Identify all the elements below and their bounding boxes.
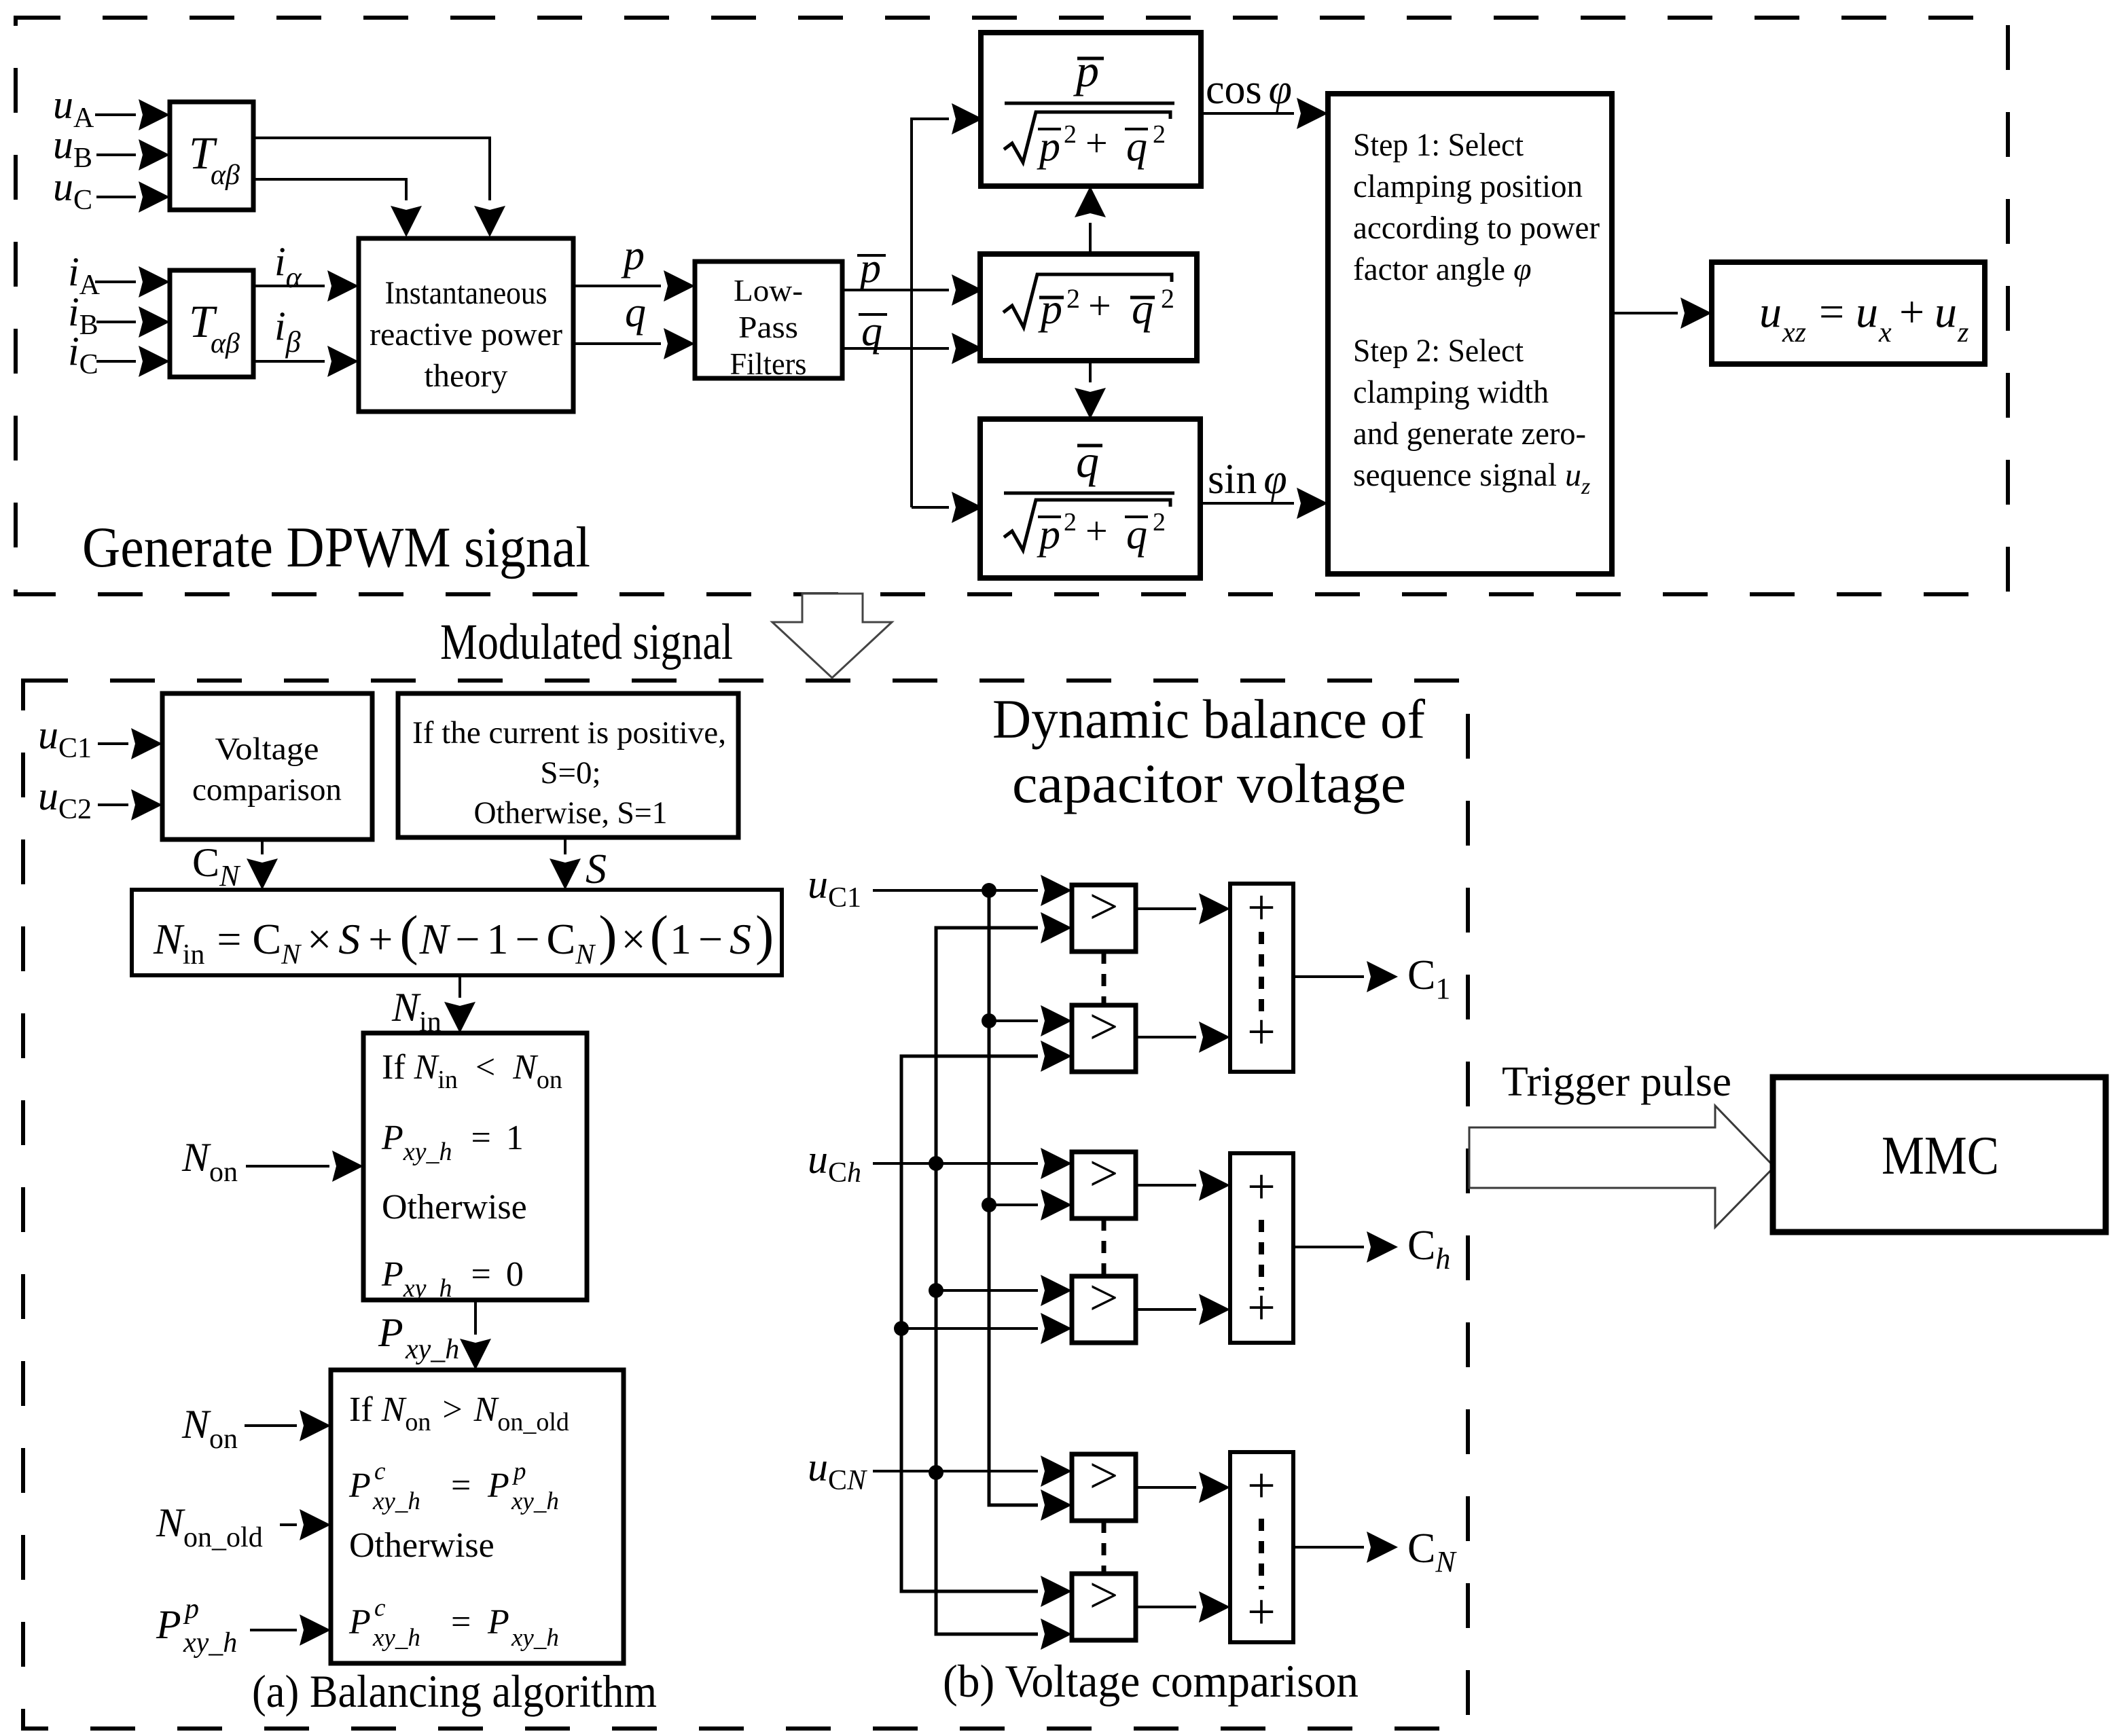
svg-text:and generate zero-: and generate zero- [1353,416,1586,452]
svg-text:Otherwise, S=1: Otherwise, S=1 [474,795,668,831]
svg-text:q: q [1132,285,1153,333]
svg-text:c: c [374,1594,386,1622]
svg-text:Otherwise: Otherwise [382,1188,527,1227]
svg-text:+: + [1247,1458,1276,1514]
svg-text:xy_h: xy_h [405,1334,459,1365]
svg-text:2: 2 [1153,508,1166,537]
svg-text:MMC: MMC [1882,1126,1999,1186]
svg-text:>: > [1090,1567,1119,1624]
svg-text:z: z [1581,474,1590,499]
svg-text:(b) Voltage comparison: (b) Voltage comparison [943,1655,1359,1707]
svg-text:+: + [1085,121,1108,165]
svg-text:q: q [1126,511,1147,558]
svg-text:p: p [1038,285,1062,333]
svg-text:+: + [1247,1159,1276,1215]
svg-text:+: + [1247,1585,1276,1640]
svg-text:+: + [1899,287,1924,337]
svg-text:+: + [1088,283,1111,328]
svg-text:+: + [1085,509,1108,553]
svg-text:p: p [621,232,645,278]
svg-text:Pass: Pass [738,310,798,344]
svg-text:Trigger pulse: Trigger pulse [1502,1059,1731,1105]
svg-text:p: p [1037,124,1060,170]
svg-text:Step 2: Select: Step 2: Select [1353,333,1524,369]
svg-text:φ: φ [1513,251,1532,287]
svg-text:αβ: αβ [211,160,240,191]
svg-text:sequence signal: sequence signal [1353,457,1557,493]
svg-text:P: P [348,1466,371,1505]
svg-text:P: P [348,1603,371,1642]
svg-text:=: = [1819,287,1844,337]
svg-text:S=0;: S=0; [540,755,600,791]
svg-text:Modulated signal: Modulated signal [440,614,733,670]
svg-text:P: P [156,1602,181,1647]
svg-text:p: p [1037,511,1060,558]
svg-text:x: x [1878,317,1892,348]
svg-text:cosφ: cosφ [1206,67,1292,113]
svg-text:clamping width: clamping width [1353,374,1549,410]
svg-text:P: P [487,1466,509,1505]
svg-text:xy_h: xy_h [372,1487,420,1515]
svg-text:p: p [183,1593,199,1625]
svg-text:xy_h: xy_h [183,1627,237,1659]
svg-text:>: > [1090,1447,1119,1504]
svg-text:theory: theory [425,358,508,394]
svg-text:2: 2 [1161,283,1174,314]
svg-text:>: > [1090,998,1119,1055]
svg-text:Voltage: Voltage [215,731,319,767]
svg-text:factor angle: factor angle [1353,251,1505,287]
svg-text:xy_h: xy_h [372,1624,420,1652]
svg-text:S: S [586,846,607,892]
svg-text:u: u [1759,287,1782,337]
svg-text:>: > [1090,878,1119,935]
svg-text:>: > [1090,1145,1119,1202]
svg-text:q: q [1076,435,1099,487]
svg-text:according to power: according to power [1353,210,1600,246]
svg-text:(a) Balancing algorithm: (a) Balancing algorithm [252,1665,657,1717]
svg-text:Step 1: Select: Step 1: Select [1353,127,1524,163]
svg-text:>: > [1090,1269,1119,1326]
svg-text:2: 2 [1066,283,1080,314]
svg-text:u: u [1565,457,1581,493]
svg-text:q: q [625,289,646,336]
svg-text:capacitor voltage: capacitor voltage [1012,753,1406,814]
svg-text:+: + [1247,880,1276,936]
svg-text:Instantaneous: Instantaneous [385,275,547,311]
svg-text:u: u [1935,287,1957,337]
svg-text:xy_h: xy_h [511,1624,559,1652]
svg-text:+: + [1247,1280,1276,1336]
svg-text:P: P [487,1603,509,1642]
svg-text:p: p [857,245,881,291]
svg-text:=: = [451,1603,471,1642]
svg-text:q: q [1126,124,1147,170]
svg-text:p: p [511,1458,526,1485]
svg-text:Low-: Low- [734,273,803,308]
svg-text:reactive power: reactive power [370,317,562,352]
svg-text:Filters: Filters [730,346,807,381]
svg-text:xz: xz [1782,317,1806,348]
svg-text:=: = [451,1466,471,1505]
svg-text:clamping position: clamping position [1353,168,1583,204]
svg-text:comparison: comparison [192,772,342,808]
svg-text:p: p [1073,45,1099,96]
svg-text:xy_h: xy_h [511,1487,559,1515]
svg-text:P: P [378,1310,403,1355]
svg-text:Dynamic balance of: Dynamic balance of [992,688,1426,750]
svg-text:2: 2 [1064,120,1077,149]
svg-text:sinφ: sinφ [1208,456,1287,503]
svg-text:u: u [1856,287,1878,337]
svg-text:Generate DPWM signal: Generate DPWM signal [82,516,590,579]
svg-text:If the current is positive,: If the current is positive, [412,715,726,751]
svg-text:c: c [374,1458,386,1485]
svg-text:2: 2 [1064,508,1077,537]
svg-text:αβ: αβ [211,328,240,359]
svg-text:z: z [1957,317,1968,348]
svg-text:2: 2 [1153,120,1166,149]
svg-text:Otherwise: Otherwise [349,1526,494,1565]
svg-text:+: + [1247,1005,1276,1060]
